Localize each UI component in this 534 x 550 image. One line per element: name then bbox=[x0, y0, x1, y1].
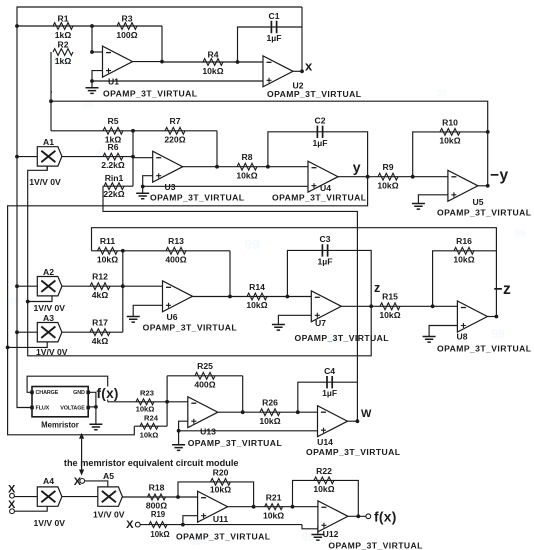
wire A2 output / R12 line bbox=[62, 285, 123, 287]
op-amp U8 bbox=[457, 301, 487, 332]
node U1 output bbox=[160, 60, 164, 64]
svg-text:C2: C2 bbox=[315, 116, 326, 126]
svg-text:OPAMP_3T_VIRTUAL: OPAMP_3T_VIRTUAL bbox=[306, 447, 400, 457]
wire U3 minus input bbox=[133, 157, 153, 159]
op-amp U1 bbox=[103, 46, 133, 77]
wire U5 minus input bbox=[413, 176, 448, 178]
node U12 output bbox=[356, 514, 360, 518]
resistor R10 bbox=[440, 129, 460, 136]
svg-text:4kΩ: 4kΩ bbox=[92, 290, 109, 300]
resistor Rin1 bbox=[104, 183, 124, 190]
svg-text:10kΩ: 10kΩ bbox=[236, 170, 257, 180]
wire U13 output bbox=[218, 411, 243, 413]
wire f(x)/R23 line to U13 minus bbox=[108, 401, 188, 403]
svg-text:99: 99 bbox=[301, 530, 315, 544]
svg-text:R18: R18 bbox=[149, 483, 165, 493]
wire R25 feedback line bbox=[167, 375, 243, 377]
wire Rin1 line bbox=[103, 185, 133, 187]
wire R7 feedback line bbox=[133, 130, 217, 132]
svg-text:z: z bbox=[374, 281, 380, 295]
svg-text:OPAMP_3T_VIRTUAL: OPAMP_3T_VIRTUAL bbox=[176, 532, 270, 542]
resistor R16 bbox=[454, 247, 474, 254]
wire A2 in1 from x bus bbox=[17, 285, 37, 287]
node y bbox=[366, 175, 370, 179]
svg-text:1µF: 1µF bbox=[267, 33, 282, 43]
node C2/R8 junction bbox=[266, 165, 270, 169]
svg-text:OPAMP_3T_VIRTUAL: OPAMP_3T_VIRTUAL bbox=[103, 89, 197, 99]
capacitor C1 bbox=[271, 21, 276, 33]
wire R9 line bbox=[368, 176, 413, 178]
resistor R12 bbox=[90, 283, 110, 290]
svg-text:OPAMP_3T_VIRTUAL: OPAMP_3T_VIRTUAL bbox=[328, 540, 422, 550]
svg-text:10kΩ: 10kΩ bbox=[313, 484, 334, 494]
node w output bbox=[356, 419, 360, 423]
wire U7 output to z node bbox=[341, 305, 371, 307]
node -z output bbox=[495, 315, 499, 319]
node z-bus tap to A2 in2 bbox=[26, 300, 30, 304]
svg-text:U14: U14 bbox=[317, 437, 333, 447]
wire U5 plus to ground bbox=[418, 195, 448, 204]
svg-text:10kΩ: 10kΩ bbox=[136, 405, 155, 414]
svg-text:OPAMP_3T_VIRTUAL: OPAMP_3T_VIRTUAL bbox=[188, 438, 282, 448]
wire X to A5 in1 top pin bbox=[85, 481, 108, 487]
memristor module box bbox=[32, 387, 88, 417]
svg-text:R20: R20 bbox=[213, 467, 229, 477]
svg-text:R5: R5 bbox=[108, 116, 119, 126]
svg-text:1V/V 0V: 1V/V 0V bbox=[93, 510, 125, 520]
resistor R23 bbox=[136, 399, 154, 405]
svg-text:OPAMP_3T_VIRTUAL: OPAMP_3T_VIRTUAL bbox=[143, 323, 237, 333]
svg-text:R22: R22 bbox=[316, 466, 332, 476]
wire A3 output / R17 line bbox=[62, 331, 123, 333]
resistor R19 bbox=[149, 522, 167, 528]
svg-text:W: W bbox=[361, 408, 372, 420]
svg-text:VOLTAGE: VOLTAGE bbox=[60, 406, 85, 412]
resistor R17 bbox=[90, 329, 110, 336]
svg-text:1V/V 0V: 1V/V 0V bbox=[29, 177, 61, 187]
svg-text:10kΩ: 10kΩ bbox=[202, 66, 223, 76]
svg-text:R10: R10 bbox=[442, 117, 458, 127]
ground U6 bbox=[127, 317, 140, 323]
svg-text:CHARGE: CHARGE bbox=[36, 390, 59, 396]
multiplier A5 bbox=[98, 487, 123, 506]
svg-text:U11: U11 bbox=[213, 514, 229, 524]
svg-text:R9: R9 bbox=[383, 162, 394, 172]
node U3 ground rail bbox=[141, 185, 145, 189]
resistor R13 bbox=[166, 247, 186, 254]
svg-text:U13: U13 bbox=[200, 427, 216, 437]
op-amp U6 bbox=[163, 281, 193, 312]
svg-text:R25: R25 bbox=[197, 361, 213, 371]
op-amp U12 bbox=[318, 501, 348, 532]
node R2/U1 minus bbox=[90, 50, 94, 54]
svg-text:400Ω: 400Ω bbox=[194, 379, 215, 389]
svg-text:−y: −y bbox=[490, 167, 509, 184]
wire A2 in2 from z bus bbox=[28, 296, 52, 302]
svg-text:A1: A1 bbox=[43, 137, 54, 147]
svg-text:R15: R15 bbox=[382, 292, 398, 302]
wire memristor VOLTAGE pin to ground bbox=[88, 406, 96, 408]
resistor R14 bbox=[247, 293, 267, 300]
multiplier A2 bbox=[37, 277, 62, 296]
wire Rin1 input vertical from w line bbox=[102, 186, 104, 211]
svg-text:U12: U12 bbox=[323, 529, 339, 539]
svg-text:10kΩ: 10kΩ bbox=[259, 416, 280, 426]
node R12 junction bbox=[121, 284, 125, 288]
resistor R24 bbox=[140, 423, 158, 429]
wire C2 feedback loop bbox=[268, 132, 368, 177]
svg-text:R1: R1 bbox=[58, 14, 69, 24]
svg-text:1kΩ: 1kΩ bbox=[105, 134, 122, 144]
wire y feedback line (U4 output y down to left column, A3-in2 and R24) bbox=[8, 177, 368, 435]
node C3/R14 junction bbox=[286, 295, 290, 299]
svg-text:OPAMP_3T_VIRTUAL: OPAMP_3T_VIRTUAL bbox=[267, 89, 361, 99]
wire x bus (top border and left vertical, U2 output x to R1/A1/A2/A3/memristor FLUX) bbox=[17, 7, 302, 408]
wire R5 line from -y branch bbox=[51, 130, 133, 132]
svg-text:400Ω: 400Ω bbox=[165, 254, 186, 264]
wire R1R2 junction vertical bbox=[91, 26, 93, 52]
wire U12 output bbox=[348, 515, 366, 517]
ground U3 bbox=[142, 187, 144, 194]
svg-text:−z: −z bbox=[494, 281, 512, 298]
wire A1 output / R6 line to summing node bbox=[62, 156, 133, 158]
node U13 output bbox=[241, 410, 245, 414]
wire -z feedback line (U8 output up and left to R11) bbox=[92, 228, 497, 317]
wire R25 feedback to U13 output bbox=[242, 376, 244, 412]
svg-text:99: 99 bbox=[514, 229, 526, 240]
node R1-R3 junction bbox=[90, 24, 94, 28]
wire U1 plus input to ground rail bbox=[92, 71, 103, 81]
svg-text:OPAMP_3T_VIRTUAL: OPAMP_3T_VIRTUAL bbox=[150, 193, 244, 203]
svg-text:1µF: 1µF bbox=[313, 138, 328, 148]
wire R4 line to U2 inverting input bbox=[162, 61, 263, 63]
wire U11 output bbox=[228, 506, 254, 508]
svg-text:OPAMP_3T_VIRTUAL: OPAMP_3T_VIRTUAL bbox=[272, 193, 366, 203]
wire R7 feedback to U3 output bbox=[216, 131, 218, 167]
node C1/R4 junction bbox=[236, 60, 240, 64]
wire A3 in1 from x bus bbox=[17, 331, 37, 333]
wire U3 summing vertical bbox=[132, 131, 134, 186]
node memristor ground junction bbox=[94, 405, 98, 409]
resistor R5 bbox=[103, 127, 123, 134]
wire C4 feedback loop bbox=[298, 382, 358, 412]
wire x-bus tap to A1 bbox=[15, 155, 19, 159]
ground memristor bbox=[95, 407, 97, 424]
wire ground rail U13 to U14 plus bbox=[179, 430, 318, 432]
wire U4 output to y node bbox=[338, 176, 368, 178]
svg-text:f(x): f(x) bbox=[374, 509, 397, 524]
op-amp U14 bbox=[318, 406, 348, 437]
svg-text:10kΩ: 10kΩ bbox=[453, 254, 474, 264]
wire U6 output bbox=[193, 296, 231, 298]
svg-text:U4: U4 bbox=[320, 183, 331, 193]
node U3 output bbox=[215, 165, 219, 169]
node R21/R22 junction bbox=[291, 505, 295, 509]
node R18/R20 junction bbox=[176, 495, 180, 499]
svg-text:U6: U6 bbox=[167, 312, 178, 322]
wire A3 in2 from y line bbox=[8, 342, 48, 348]
wire R2 input branch from -y bus bbox=[50, 52, 52, 131]
node R23/R24/R25 junction bbox=[165, 400, 169, 404]
svg-text:4kΩ: 4kΩ bbox=[92, 336, 109, 346]
node -y output bbox=[486, 184, 490, 188]
wire R24 line bbox=[134, 425, 167, 427]
resistor R20 bbox=[211, 479, 231, 486]
capacitor C4 bbox=[327, 376, 332, 388]
svg-text:R11: R11 bbox=[100, 236, 116, 246]
svg-text:R3: R3 bbox=[122, 14, 133, 24]
wire U12 plus/ground vertical bbox=[317, 525, 319, 534]
svg-text:1V/V 0V: 1V/V 0V bbox=[34, 303, 66, 313]
ground U5 bbox=[412, 204, 425, 210]
svg-text:800Ω: 800Ω bbox=[146, 500, 167, 510]
svg-text:R21: R21 bbox=[266, 492, 282, 502]
svg-text:R19: R19 bbox=[151, 510, 166, 519]
node -y/R2 junction bbox=[49, 99, 53, 103]
svg-text:10kΩ: 10kΩ bbox=[379, 310, 400, 320]
wire x-bus tap to R1 bbox=[15, 24, 19, 28]
multiplier A1 bbox=[37, 147, 62, 166]
svg-text:U1: U1 bbox=[108, 77, 119, 87]
svg-text:A3: A3 bbox=[43, 313, 54, 323]
resistor R4 bbox=[203, 59, 223, 66]
svg-text:U7: U7 bbox=[315, 318, 326, 328]
svg-text:R17: R17 bbox=[92, 318, 108, 328]
svg-text:C3: C3 bbox=[320, 234, 331, 244]
svg-text:R26: R26 bbox=[262, 398, 278, 408]
wire R15 line to U8 minus bbox=[371, 305, 457, 307]
svg-text:f(x): f(x) bbox=[97, 386, 119, 401]
wire R1/R3 input line bbox=[17, 25, 162, 27]
svg-text:R7: R7 bbox=[170, 116, 181, 126]
node U13 ground rail bbox=[177, 429, 181, 433]
svg-text:R16: R16 bbox=[456, 236, 472, 246]
svg-text:R13: R13 bbox=[168, 236, 184, 246]
multiplier A4 bbox=[37, 487, 62, 506]
wire memristor GND pin to ground bbox=[88, 392, 96, 407]
wire U6 minus input bbox=[123, 285, 163, 287]
svg-text:U8: U8 bbox=[457, 331, 468, 341]
svg-text:GND: GND bbox=[73, 390, 85, 396]
wire U6 summing vertical bbox=[122, 251, 124, 332]
resistor R25 bbox=[195, 372, 215, 379]
wire memristor CHARGE to f(x) node (over the top) bbox=[27, 376, 108, 402]
svg-text:R14: R14 bbox=[249, 282, 265, 292]
op-amp U5 bbox=[448, 170, 478, 201]
resistor R2 bbox=[53, 49, 73, 56]
wire A5 output / R18 line to U11 minus bbox=[122, 496, 197, 498]
wire R8 line to U4 minus bbox=[217, 166, 308, 168]
resistor R7 bbox=[165, 127, 185, 134]
wire C3 feedback loop bbox=[287, 250, 371, 306]
node R5/R7 junction bbox=[131, 129, 135, 133]
svg-text:10kΩ: 10kΩ bbox=[210, 485, 231, 495]
svg-text:X: X bbox=[126, 519, 134, 531]
node C4/R26 junction bbox=[296, 410, 300, 414]
wire U11 plus input bbox=[183, 516, 198, 525]
svg-text:U5: U5 bbox=[473, 197, 484, 207]
svg-text:A5: A5 bbox=[103, 471, 114, 481]
node R10/-y junction bbox=[486, 130, 490, 134]
svg-text:C1: C1 bbox=[269, 11, 280, 21]
svg-text:1V/V 0V: 1V/V 0V bbox=[34, 518, 66, 528]
wire X1 to A4 in1 bbox=[14, 496, 37, 498]
svg-text:1µF: 1µF bbox=[322, 388, 337, 398]
resistor R15 bbox=[380, 303, 400, 310]
wire R13 feedback to U6 output bbox=[229, 251, 231, 297]
op-amp U3 bbox=[153, 151, 183, 182]
node R6 junction bbox=[131, 155, 135, 159]
wire R20 feedback loop bbox=[178, 482, 254, 507]
resistor R1 bbox=[53, 23, 73, 30]
wire U3 plus to ground bbox=[143, 176, 153, 187]
svg-text:99: 99 bbox=[8, 296, 20, 307]
ground U13 bbox=[178, 431, 180, 445]
svg-text:R24: R24 bbox=[144, 414, 159, 423]
svg-text:10kΩ: 10kΩ bbox=[263, 511, 284, 521]
svg-text:y: y bbox=[353, 159, 361, 175]
wire R22 feedback loop bbox=[293, 480, 359, 516]
svg-text:U3: U3 bbox=[165, 182, 176, 192]
svg-text:A4: A4 bbox=[43, 476, 54, 486]
svg-text:10kΩ: 10kΩ bbox=[246, 300, 267, 310]
svg-text:2.2kΩ: 2.2kΩ bbox=[101, 160, 125, 170]
wire A1 in2 from z bus bbox=[46, 166, 48, 170]
svg-text:FLUX: FLUX bbox=[36, 406, 50, 412]
terminal f(x) output bbox=[366, 514, 371, 519]
wire U5 output bbox=[478, 185, 488, 187]
svg-text:R23: R23 bbox=[140, 388, 154, 397]
node U11 plus rail bbox=[181, 523, 185, 527]
node R9/R10 junction bbox=[411, 175, 415, 179]
node x output bbox=[300, 69, 304, 73]
wire U13 summing vertical bbox=[166, 376, 168, 426]
op-amp U2 bbox=[263, 56, 293, 87]
svg-text:R4: R4 bbox=[208, 50, 219, 60]
caption arrow to memristor module bbox=[81, 439, 83, 470]
svg-text:x: x bbox=[305, 59, 313, 74]
resistor R6 bbox=[103, 153, 123, 160]
wire X2 to A4 in2 bbox=[14, 506, 47, 511]
node U11 output bbox=[252, 505, 256, 509]
wire R10 feedback loop bbox=[413, 132, 488, 177]
svg-text:1kΩ: 1kΩ bbox=[55, 56, 72, 66]
svg-text:1µF: 1µF bbox=[318, 256, 333, 266]
wire U2 output / x node vertical bbox=[301, 7, 303, 71]
resistor R22 bbox=[314, 477, 334, 484]
wire plus rail step to U12 ground bbox=[302, 525, 318, 529]
wire U3 output bbox=[183, 166, 217, 168]
wire U8 plus to ground bbox=[429, 326, 457, 337]
wire w feedback line (U14 output w up and left to Rin1) bbox=[103, 211, 357, 422]
svg-text:R2: R2 bbox=[58, 40, 69, 50]
label f(x) memristor output bbox=[98, 387, 128, 400]
op-amp U11 bbox=[198, 491, 228, 522]
svg-text:10kΩ: 10kΩ bbox=[97, 254, 118, 264]
svg-text:Rin1: Rin1 bbox=[105, 173, 124, 183]
svg-text:100Ω: 100Ω bbox=[116, 30, 137, 40]
node R11/R13 summing junction bbox=[121, 249, 125, 253]
capacitor C2 bbox=[317, 126, 322, 138]
ground U8 bbox=[423, 337, 436, 343]
wire R3 feedback to U1 output bbox=[161, 26, 163, 62]
op-amp U7 bbox=[311, 291, 341, 322]
op-amp U13 bbox=[188, 397, 218, 428]
wire R2 line to U1 inverting input bbox=[51, 91, 52, 93]
wire z feedback line (z node down and left to multiplier in2 bus) bbox=[28, 166, 372, 356]
svg-text:A2: A2 bbox=[43, 267, 54, 277]
svg-text:99: 99 bbox=[437, 88, 447, 98]
resistor R18 bbox=[148, 494, 166, 500]
svg-text:1V/V 0V: 1V/V 0V bbox=[36, 347, 68, 357]
wire A4 output to A5 in2 bbox=[62, 496, 98, 498]
wire U7 plus to ground bbox=[278, 315, 311, 324]
resistor R26 bbox=[260, 409, 280, 416]
svg-text:OPAMP_3T_VIRTUAL: OPAMP_3T_VIRTUAL bbox=[437, 343, 531, 353]
resistor R21 bbox=[265, 504, 283, 510]
svg-text:220Ω: 220Ω bbox=[164, 134, 185, 144]
op-amp U4 bbox=[308, 161, 338, 192]
ground U7 bbox=[272, 325, 285, 331]
resistor R3 bbox=[117, 23, 137, 30]
svg-text:OPAMP_3T_VIRTUAL: OPAMP_3T_VIRTUAL bbox=[295, 333, 389, 343]
resistor R9 bbox=[378, 173, 398, 180]
svg-text:10kΩ: 10kΩ bbox=[439, 136, 460, 146]
svg-text:OPAMP_3T_VIRTUAL: OPAMP_3T_VIRTUAL bbox=[437, 207, 531, 217]
ground U1 bbox=[91, 81, 93, 88]
ground U12 bbox=[311, 535, 324, 541]
node U6 output bbox=[228, 295, 232, 299]
svg-text:99: 99 bbox=[244, 236, 260, 252]
wire U6 plus to ground bbox=[133, 305, 162, 316]
wire R26 line to U14 minus bbox=[243, 411, 318, 413]
wire A1 in1 from x bus bbox=[17, 156, 37, 158]
wire U13 plus to ground rail bbox=[179, 421, 188, 431]
multiplier A3 bbox=[37, 323, 62, 342]
wire R16 feedback loop bbox=[433, 251, 497, 306]
svg-text:R12: R12 bbox=[92, 272, 108, 282]
wire U1 minus input bbox=[92, 51, 103, 53]
svg-text:10kΩ: 10kΩ bbox=[377, 180, 398, 190]
wire C1 feedback loop bbox=[238, 27, 303, 62]
node R15/R16 junction bbox=[431, 304, 435, 308]
wire x-bus tap to A3 bbox=[15, 330, 19, 334]
wire R11 line from -z feedback bbox=[92, 250, 231, 252]
svg-text:R8: R8 bbox=[242, 152, 253, 162]
node U1 ground rail bbox=[90, 79, 94, 83]
svg-text:99: 99 bbox=[491, 327, 505, 341]
wire U8 output bbox=[487, 316, 496, 318]
svg-text:Memristor: Memristor bbox=[41, 420, 79, 429]
wire -y bus (U5 output to R2/R5 inputs) bbox=[51, 101, 488, 186]
node y-line tap to A3 in2 bbox=[6, 346, 10, 350]
svg-text:C4: C4 bbox=[324, 366, 335, 376]
wire R19 line / plus rail to U12 bbox=[140, 524, 302, 526]
resistor R11 bbox=[98, 247, 118, 254]
resistor R8 bbox=[237, 163, 257, 170]
capacitor C3 bbox=[322, 244, 327, 256]
wire U14 output to w node bbox=[348, 420, 358, 422]
wire ground rail U1 to U2 plus input bbox=[92, 80, 263, 82]
wire U2 output bbox=[293, 70, 302, 72]
wire x-bus tap to A2 bbox=[15, 284, 19, 288]
svg-text:10kΩ: 10kΩ bbox=[150, 530, 169, 539]
svg-text:10kΩ: 10kΩ bbox=[140, 430, 159, 439]
svg-text:22kΩ: 22kΩ bbox=[103, 189, 124, 199]
wire R21 line to U12 minus bbox=[254, 506, 318, 508]
node z bbox=[369, 304, 373, 308]
wire U1 output to R4 bbox=[132, 61, 163, 63]
